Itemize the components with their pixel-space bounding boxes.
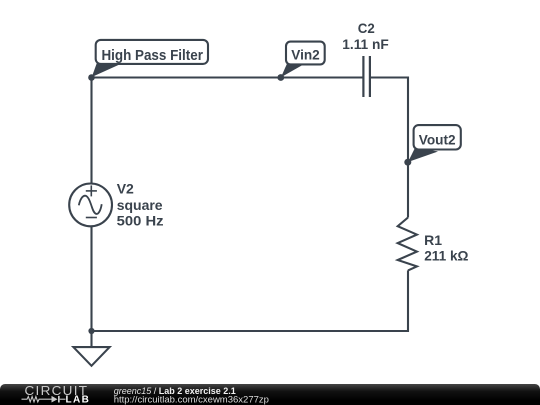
svg-text:500 Hz: 500 Hz (117, 212, 164, 228)
svg-text:211 kΩ: 211 kΩ (424, 247, 468, 263)
ground symbol triangle (73, 347, 109, 366)
node ground junction dot (88, 328, 94, 334)
V2 minus sign (86, 217, 97, 219)
callout Vout2 box (414, 125, 461, 149)
callout Vout2 tail (408, 147, 438, 162)
callout High Pass Filter tail (92, 63, 120, 78)
footer bar (0, 384, 540, 405)
V2 sine wave (79, 196, 102, 214)
svg-text:http://circuitlab.com/cxewm36x: http://circuitlab.com/cxewm36x277zp (114, 395, 269, 405)
wire V2 bottom down to bottom junction (90, 226, 92, 331)
svg-text:High Pass Filter: High Pass Filter (101, 48, 203, 64)
svg-text:square: square (117, 197, 163, 213)
V2 plus sign (86, 185, 97, 196)
svg-text:1.11 nF: 1.11 nF (342, 36, 389, 52)
node A dot (top-left junction) (88, 74, 95, 81)
wire left side: node A down to V2 top (90, 78, 92, 184)
CircuitLab logo resistor zigzag (22, 397, 52, 402)
callout Vin2 tail (281, 63, 303, 78)
callout Vin2 box (286, 42, 325, 65)
svg-text:R1: R1 (424, 232, 442, 248)
wire bottom: right column to ground junction (92, 270, 409, 331)
node Vout2 dot (404, 159, 411, 166)
svg-text:C2: C2 (358, 20, 375, 36)
callout High Pass Filter box (96, 40, 208, 64)
svg-text:Vin2: Vin2 (291, 46, 320, 62)
CircuitLab logo bar (58, 396, 60, 403)
resistor R1 zigzag (398, 218, 417, 271)
svg-text:LAB: LAB (66, 395, 91, 405)
wire capacitor to top-right corner and down right side (370, 78, 408, 218)
svg-text:Vout2: Vout2 (419, 131, 456, 147)
node Vin2 dot (277, 74, 284, 81)
CircuitLab logo lead line (60, 398, 66, 400)
voltage source V2 circle (69, 184, 112, 227)
wire top-left to capacitor (92, 76, 364, 78)
capacitor C2 plates (363, 56, 370, 97)
svg-text:V2: V2 (117, 181, 134, 197)
ground stem (90, 331, 92, 347)
CircuitLab logo play arrow (52, 396, 58, 403)
